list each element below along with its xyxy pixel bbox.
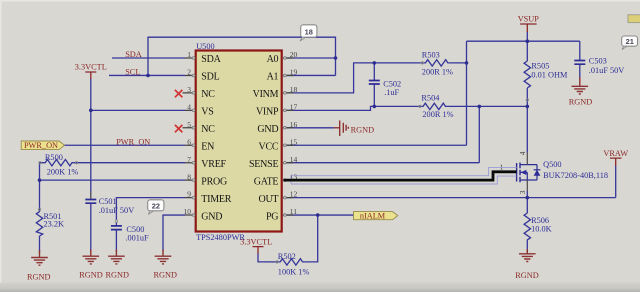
wire SCL-A0-A1 top link xyxy=(148,37,336,75)
node OUT-source junction xyxy=(526,196,530,200)
svg-text:10: 10 xyxy=(184,207,192,216)
wire GATE thick trace with halo xyxy=(284,167,517,184)
svg-text:200R 1%: 200R 1% xyxy=(422,110,453,119)
capacitor C502 xyxy=(369,80,401,97)
wire R504 right to R505 bottom node xyxy=(447,105,527,107)
U500 right pins 20-11 xyxy=(283,57,294,217)
wire R501 bottom to ground xyxy=(39,236,41,253)
wire PROG pin8 xyxy=(40,179,186,181)
wire Q500 source down to OUT node xyxy=(526,191,528,198)
node R503-VCC junction xyxy=(465,61,469,65)
resistor R505 xyxy=(524,61,568,101)
ground RGND under C503 xyxy=(569,77,593,107)
svg-text:SCL: SCL xyxy=(125,68,140,77)
wire PG pin11 to nIALM port xyxy=(283,214,354,216)
node SENSE junction xyxy=(478,105,482,109)
svg-text:7: 7 xyxy=(187,155,191,164)
resistor R500 xyxy=(39,153,79,176)
ground RGND under C501 xyxy=(79,250,103,280)
ground RGND under C500 xyxy=(105,250,129,280)
ground RGND under pin10 xyxy=(153,250,177,280)
no-connect X pin5 xyxy=(175,125,183,132)
wire R502 to PG vertical xyxy=(304,215,317,262)
wire C502 top lead xyxy=(373,63,375,80)
wire VRAW stem xyxy=(615,166,617,198)
svg-text:RGND: RGND xyxy=(105,270,129,279)
svg-text:2: 2 xyxy=(187,68,191,77)
wire top VSUP rail xyxy=(467,40,580,42)
svg-text:10.0K: 10.0K xyxy=(531,225,552,234)
ground RGND under R506 xyxy=(515,249,539,280)
resistor R501 xyxy=(36,208,64,236)
svg-text:TIMER: TIMER xyxy=(201,194,231,205)
svg-text:EN: EN xyxy=(201,141,214,152)
op-amp U500 chip body TPS2480PWR xyxy=(196,51,282,232)
wire C501 bottom to ground xyxy=(90,203,92,251)
wire 3.3VCTL to R502 xyxy=(258,253,277,262)
U500 pin names right xyxy=(249,54,279,222)
wire VINP pin17 to R504 xyxy=(283,106,419,110)
wire SCL to pin2 xyxy=(109,74,185,76)
wire A1 pin19 xyxy=(283,74,336,76)
svg-text:5: 5 xyxy=(187,120,191,129)
svg-text:VRAW: VRAW xyxy=(603,149,628,158)
svg-text:18: 18 xyxy=(290,85,298,94)
wire 3.3VCTL down to C501 xyxy=(90,79,92,200)
svg-text:C503: C503 xyxy=(589,57,607,66)
Q500 drain pin lead xyxy=(526,153,528,165)
svg-text:RGND: RGND xyxy=(153,270,177,279)
node R505-drain junction xyxy=(526,105,530,109)
wire C502 bottom lead xyxy=(373,84,375,106)
svg-text:6: 6 xyxy=(187,137,191,146)
svg-text:R500: R500 xyxy=(45,153,63,162)
svg-text:PG: PG xyxy=(266,211,278,222)
wire GND pin10 to ground xyxy=(163,215,185,251)
no-connect X pin3 xyxy=(175,90,183,97)
wire A0 pin20 xyxy=(283,57,336,59)
svg-text:100K 1%: 100K 1% xyxy=(278,267,310,276)
svg-text:3: 3 xyxy=(187,85,191,94)
ground RGND under R501 xyxy=(27,250,51,282)
svg-text:1: 1 xyxy=(187,50,191,59)
wire VCC pin15 xyxy=(283,144,467,146)
resistor R504 xyxy=(419,94,454,120)
svg-text:RGND: RGND xyxy=(27,273,51,282)
transistor Q500 BUK7208-40B,118 N-MOSFET xyxy=(500,151,608,194)
node SCL junction xyxy=(146,74,150,78)
svg-text:NC: NC xyxy=(201,124,215,135)
resistor R503 xyxy=(421,51,453,77)
svg-text:C501: C501 xyxy=(99,197,117,206)
U500 pin numbers left xyxy=(184,50,192,216)
node A0 junction xyxy=(334,56,338,60)
svg-text:.001uF: .001uF xyxy=(125,233,149,242)
svg-text:A0: A0 xyxy=(267,54,279,65)
wire R506 top lead xyxy=(526,198,528,213)
resistor R506 xyxy=(524,213,552,242)
note bubble 21 xyxy=(622,36,638,50)
wire C503 top lead xyxy=(579,41,581,60)
svg-text:SDL: SDL xyxy=(201,72,219,83)
svg-text:GND: GND xyxy=(201,211,222,222)
svg-text:200K 1%: 200K 1% xyxy=(47,167,79,176)
port PWR_ON xyxy=(21,141,64,150)
Q500 source pin lead xyxy=(526,180,528,191)
svg-text:12: 12 xyxy=(290,190,298,199)
svg-text:VSUP: VSUP xyxy=(518,15,540,24)
svg-text:GATE: GATE xyxy=(254,176,279,187)
svg-text:SDA: SDA xyxy=(125,50,142,59)
svg-text:1: 1 xyxy=(500,162,504,171)
resistor R502 xyxy=(276,252,310,276)
port nIALM xyxy=(354,211,398,220)
svg-text:GND: GND xyxy=(257,124,278,135)
svg-text:PWR_ON: PWR_ON xyxy=(24,141,58,150)
yellow sticky box top right (clipped) xyxy=(628,15,640,23)
svg-text:R504: R504 xyxy=(421,94,440,103)
svg-text:21: 21 xyxy=(626,37,634,46)
svg-text:U500: U500 xyxy=(196,42,214,51)
wire R505 top lead xyxy=(526,41,528,61)
svg-text:17: 17 xyxy=(290,102,298,111)
wire C503 bottom lead xyxy=(579,65,581,80)
wire VS pin4 xyxy=(91,109,185,111)
wire R500 right to VREF pin7 xyxy=(77,162,185,164)
svg-text:20: 20 xyxy=(290,50,298,59)
wire C500 bottom to ground xyxy=(115,230,117,252)
wire R503 right to VCC node xyxy=(449,62,466,64)
wire PWR_ON to EN pin6 xyxy=(65,144,186,146)
wire Q500 drain up to node xyxy=(526,106,528,152)
svg-text:RGND: RGND xyxy=(79,270,103,279)
svg-text:3.3VCTL: 3.3VCTL xyxy=(75,63,107,72)
capacitor C503 xyxy=(574,57,624,76)
wire VINM pin18 to R503 xyxy=(283,63,422,93)
node VS junction xyxy=(89,109,93,113)
wire SENSE vertical xyxy=(478,106,480,162)
svg-text:15: 15 xyxy=(290,137,298,146)
wire VSUP stem lower xyxy=(526,32,528,42)
svg-text:3.3VCTL: 3.3VCTL xyxy=(240,237,272,246)
svg-text:4: 4 xyxy=(187,102,191,111)
svg-text:RGND: RGND xyxy=(569,98,593,107)
svg-text:.01uF 50V: .01uF 50V xyxy=(589,66,625,75)
svg-text:nIALM: nIALM xyxy=(360,211,386,220)
svg-text:R502: R502 xyxy=(278,252,296,261)
svg-text:16: 16 xyxy=(290,120,298,129)
svg-text:0.01 OHM: 0.01 OHM xyxy=(531,70,568,79)
svg-text:VINP: VINP xyxy=(256,107,279,118)
svg-text:.01uF 50V: .01uF 50V xyxy=(99,206,135,215)
node PG junction xyxy=(316,213,320,217)
svg-text:3: 3 xyxy=(518,190,527,194)
svg-text:RGND: RGND xyxy=(351,125,375,134)
node VSUP junction xyxy=(526,39,530,43)
U500 left pins 1-10 xyxy=(183,57,196,217)
svg-text:22: 22 xyxy=(152,201,160,210)
note bubble 22 xyxy=(148,200,164,215)
svg-text:PROG: PROG xyxy=(201,176,227,187)
svg-text:R506: R506 xyxy=(531,216,549,225)
svg-text:RGND: RGND xyxy=(515,271,539,280)
svg-text:19: 19 xyxy=(290,68,298,77)
power port VRAW xyxy=(603,149,628,166)
node VINM-C502 junction xyxy=(373,61,377,65)
svg-text:VCC: VCC xyxy=(258,141,278,152)
svg-text:14: 14 xyxy=(290,155,298,164)
wire OUT pin12 long run to VRAW corner xyxy=(283,197,616,199)
svg-text:23.2K: 23.2K xyxy=(44,219,65,228)
ground RGND sideways at pin16 xyxy=(340,121,374,137)
svg-text:SENSE: SENSE xyxy=(249,159,278,170)
U500 pin names left xyxy=(201,54,231,222)
svg-text:4: 4 xyxy=(518,151,527,155)
wire SENSE pin14 xyxy=(283,162,479,164)
svg-text:18: 18 xyxy=(305,27,313,36)
wire R505 bottom lead xyxy=(526,88,528,106)
capacitor C501 xyxy=(85,191,134,215)
power port VSUP xyxy=(518,15,540,32)
svg-text:A1: A1 xyxy=(267,72,279,83)
capacitor C500 xyxy=(111,220,149,242)
svg-text:SDA: SDA xyxy=(201,54,221,65)
svg-text:9: 9 xyxy=(187,190,191,199)
wire GND pin16 to RGND bars xyxy=(283,127,334,129)
svg-text:Q500: Q500 xyxy=(543,160,561,169)
svg-text:R503: R503 xyxy=(422,51,440,60)
svg-text:OUT: OUT xyxy=(258,194,278,205)
svg-text:R505: R505 xyxy=(531,61,549,70)
wire R506 bottom lead xyxy=(526,242,528,253)
U500 pin numbers right xyxy=(290,50,298,216)
wire TIMER pin9 to C500 xyxy=(116,198,185,220)
svg-text:VS: VS xyxy=(201,107,213,118)
wire R500 left vertical to R501 xyxy=(39,163,41,211)
wire vertical VSUP rail to VCC xyxy=(466,41,468,145)
svg-text:BUK7208-40B,118: BUK7208-40B,118 xyxy=(543,171,608,180)
svg-text:11: 11 xyxy=(290,207,297,216)
svg-text:8: 8 xyxy=(187,172,191,181)
svg-text:NC: NC xyxy=(201,89,215,100)
svg-text:VINM: VINM xyxy=(253,89,279,100)
wire SDA to pin1 xyxy=(112,57,185,59)
svg-text:200R 1%: 200R 1% xyxy=(422,68,453,77)
node junction dots xyxy=(38,39,529,216)
svg-text:VREF: VREF xyxy=(201,159,226,170)
svg-text:.1uF: .1uF xyxy=(384,88,399,97)
note bubble 18 xyxy=(300,25,317,41)
svg-text:TPS2480PWR: TPS2480PWR xyxy=(196,233,245,242)
node VINP-C502 junction xyxy=(373,105,377,109)
power port 3.3VCTL top xyxy=(75,63,107,79)
svg-text:PWR_ON: PWR_ON xyxy=(116,138,150,147)
power port 3.3VCTL bottom xyxy=(240,237,272,253)
node PROG junction xyxy=(38,178,42,182)
